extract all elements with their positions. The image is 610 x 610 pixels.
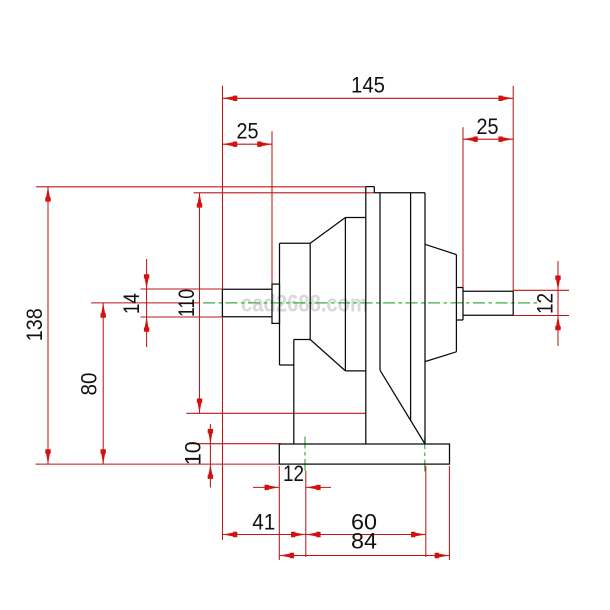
svg-text:14: 14 <box>119 293 144 314</box>
part outline: front plate left edge <box>365 187 367 444</box>
part outline: flange left edge <box>279 243 281 365</box>
arrow 12R bottom <box>555 316 560 331</box>
part outline: rear plate left edge <box>410 193 412 420</box>
dimension line 12 bottom left part <box>253 486 279 488</box>
extension line x=272 (shaft step) <box>271 131 273 284</box>
extension line y=289 (shaft top) <box>141 288 223 290</box>
dimension line 41 and 60 <box>223 534 426 536</box>
svg-text:12: 12 <box>533 293 558 314</box>
part outline: bump right edge <box>373 187 375 193</box>
part outline: rear plate right edge <box>424 193 426 444</box>
extension line x=306 below base <box>305 471 307 557</box>
svg-text:84: 84 <box>351 529 377 554</box>
part outline: right shaft bottom edge <box>463 314 513 316</box>
arrow 25R right <box>498 137 513 142</box>
extension line x=222.5 (left datum) <box>222 86 224 540</box>
part outline: cylinder left edge <box>344 218 346 371</box>
arrow 25R left <box>463 137 478 142</box>
part outline: cylinder top edge <box>345 217 365 219</box>
part outline: right collar right edge <box>462 288 464 321</box>
arrow 41 left <box>223 532 238 537</box>
arrow 145 right <box>498 96 513 101</box>
part outline: gusset diagonal <box>380 370 425 444</box>
arrow 84 left <box>279 553 294 558</box>
dimension line 110 <box>199 193 201 413</box>
extension line x=513 (right datum) <box>512 86 514 292</box>
arrow 145 left <box>223 96 238 101</box>
part outline: flange bottom edge <box>280 364 294 366</box>
dimension line 138 <box>47 187 49 464</box>
part outline: cone top edge <box>310 218 345 244</box>
arrow 80 bottom <box>101 449 106 464</box>
arrow 138 top <box>45 187 50 202</box>
svg-text:25: 25 <box>477 114 499 139</box>
part outline: left collar <box>272 284 280 323</box>
arrow 25L right <box>257 142 272 147</box>
svg-text:145: 145 <box>351 73 385 98</box>
part outline: right shaft top edge <box>463 290 513 292</box>
extension line y=315 (right shaft bottom) <box>513 315 569 317</box>
part outline: rear cone top edge <box>425 244 456 254</box>
part outline: left shaft end cap <box>221 289 223 317</box>
part outline: flange top edge <box>280 242 311 244</box>
arrow 41 right <box>291 532 306 537</box>
centerline: right foot hole centerline <box>424 437 426 472</box>
dimension line 12 right <box>557 261 559 346</box>
extension line x=463 (right collar) <box>462 127 464 287</box>
extension line y=413 <box>186 412 365 414</box>
part outline: cone bottom edge <box>310 340 345 371</box>
arrow 110 top <box>197 193 202 208</box>
extension line y=317 (shaft bottom) <box>141 316 223 318</box>
part outline: step under flange <box>294 339 310 341</box>
part outline: bump top edge <box>366 186 375 188</box>
arrow 25L left <box>223 142 238 147</box>
part outline: body top edge <box>374 192 425 194</box>
part outline: right collar bottom <box>456 319 463 321</box>
extension line x=279 below base <box>278 466 280 560</box>
arrow 10 bottom <box>208 464 213 479</box>
dimension line 14 <box>146 259 148 347</box>
svg-text:110: 110 <box>174 289 199 317</box>
extension line y=187 (bump top) <box>36 186 366 188</box>
arrow 14 bottom <box>144 317 149 332</box>
dimension line 10 <box>209 424 211 488</box>
extension line y=303 (axis) <box>91 302 200 304</box>
extension line y=290 (right shaft top) <box>513 289 569 291</box>
part outline: left shaft top edge <box>222 288 272 290</box>
svg-text:138: 138 <box>22 308 47 341</box>
svg-text:80: 80 <box>77 373 102 396</box>
dimension line 84 <box>279 555 449 557</box>
extension line x=449 below base <box>448 466 450 560</box>
arrow 12B left <box>265 485 280 490</box>
part outline: base plate <box>279 444 449 464</box>
arrow 110 bottom <box>197 399 202 414</box>
extension line y=193 (body top) <box>194 192 375 194</box>
svg-text:10: 10 <box>181 441 206 465</box>
arrow 138 bottom <box>45 449 50 464</box>
dimension line 12 bottom right part <box>306 486 331 488</box>
part outline: left shaft bottom edge <box>222 316 272 318</box>
part outline: flange right edge <box>309 243 311 339</box>
part outline: right shaft end cap <box>512 291 514 315</box>
svg-text:41: 41 <box>252 510 275 535</box>
part outline: cylinder bottom edge <box>345 370 365 372</box>
arrow 84 right <box>435 553 450 558</box>
extension line y=444 (base top) <box>188 443 281 445</box>
arrow 14 top <box>144 274 149 289</box>
dimension line 25 right <box>463 138 513 140</box>
svg-text:12: 12 <box>283 461 304 486</box>
part outline: stand front edge <box>293 340 295 445</box>
part outline: rear cone bottom edge <box>425 352 456 362</box>
dimension line 145 <box>223 97 514 99</box>
part outline: right collar top <box>456 287 463 289</box>
arrow 80 top <box>101 303 106 318</box>
svg-text:25: 25 <box>237 119 259 144</box>
centerline: left foot hole centerline <box>304 437 306 472</box>
dimension line 80 <box>102 303 104 464</box>
arrow 12R top <box>555 276 560 291</box>
arrow 10 top <box>208 429 213 444</box>
arrow 60 right <box>411 532 426 537</box>
part outline: front plate right edge <box>379 193 381 370</box>
extension line y=464 (base bottom) <box>36 463 282 465</box>
extension line x=426 below base <box>425 466 427 557</box>
arrow 12B right <box>306 485 321 490</box>
centerline: horizontal centerline <box>203 302 540 304</box>
svg-text:cad2688.com: cad2688.com <box>241 291 368 318</box>
arrow 60 left <box>306 532 321 537</box>
part outline: rear cone end cap <box>455 255 457 352</box>
dimension line 25 left <box>223 143 273 145</box>
